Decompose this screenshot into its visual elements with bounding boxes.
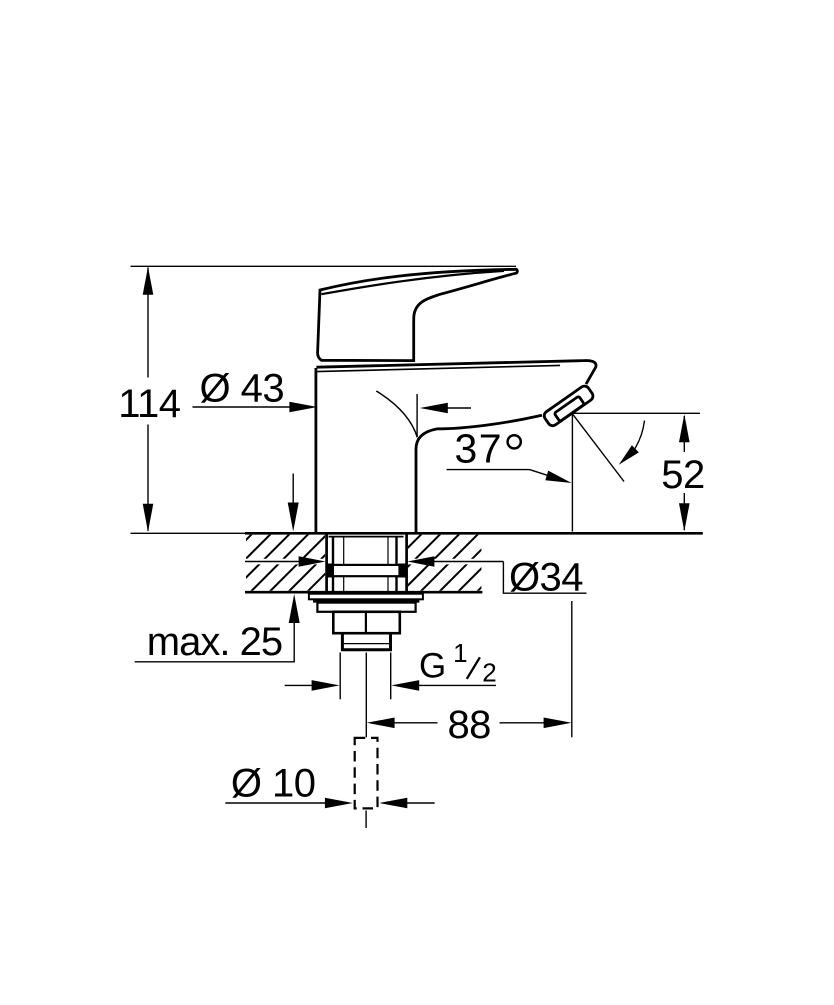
svg-text:114: 114 [118,382,181,426]
svg-text:Ø34: Ø34 [509,555,583,599]
svg-text:88: 88 [447,703,491,747]
svg-text:37: 37 [455,426,504,472]
svg-text:Ø 10: Ø 10 [231,762,316,806]
svg-text:1: 1 [453,638,467,668]
svg-text:max. 25: max. 25 [147,620,282,664]
svg-text:2: 2 [482,658,496,688]
svg-text:52: 52 [661,453,705,497]
svg-text:G: G [419,646,446,685]
svg-text:Ø 43: Ø 43 [199,367,284,411]
